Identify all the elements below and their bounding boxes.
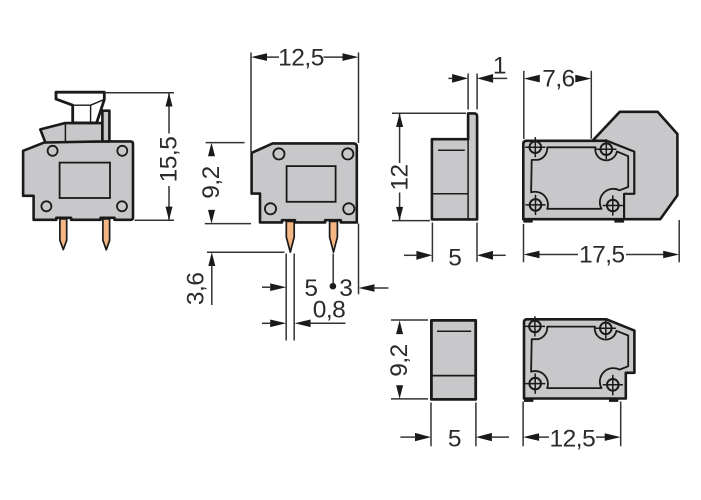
- dim 15,5 arrow down: [166, 207, 173, 221]
- svg-text:1: 1: [493, 53, 506, 80]
- body: [431, 320, 475, 399]
- body with side wall: [432, 113, 477, 219]
- dim 0,8 tail left: [262, 322, 271, 324]
- svg-text:0,8: 0,8: [313, 296, 346, 323]
- solder pin left (front): [286, 221, 294, 252]
- dim 1 right arrow: [477, 74, 493, 83]
- dim 12,5 right extension line (extends below for dim 3): [358, 53, 360, 295]
- dim 15,5 arrow up: [166, 93, 173, 107]
- dim 9,2 bottom reference line: [205, 223, 251, 225]
- pin width extension lines: [286, 254, 294, 341]
- dim 5 arrow (points to pin1): [270, 283, 286, 291]
- dim 12,5 dimension line: [538, 436, 606, 438]
- inner moulding contour: [531, 147, 628, 209]
- dim 7,6 right extension line: [590, 71, 592, 139]
- internal dash: [437, 330, 471, 332]
- push-button (white pusher): [56, 92, 104, 123]
- foot right: [614, 219, 624, 222]
- dim 9,2 arrow down: [396, 385, 403, 399]
- svg-text:7,6: 7,6: [542, 66, 575, 93]
- svg-text:3,6: 3,6: [183, 273, 210, 306]
- svg-text:17,5: 17,5: [579, 242, 625, 269]
- pin tip reference line: [207, 251, 285, 253]
- centre rectangle opening: [287, 166, 336, 202]
- dim 9,2 arrow up: [396, 320, 403, 334]
- internal step line: [431, 375, 475, 377]
- solder pin left: [60, 219, 67, 250]
- screw mark bottom-left: [525, 195, 545, 215]
- svg-text:12: 12: [387, 164, 414, 190]
- lever division line: [64, 123, 66, 141]
- dim 0,8 arrow left side: [270, 320, 286, 328]
- terminal body (front view): [252, 143, 357, 222]
- lever arm: [40, 123, 102, 142]
- dim 12 arrow down: [396, 207, 403, 221]
- internal divider (clamp housing boundary): [607, 141, 634, 219]
- hole bottom-left: [41, 201, 51, 211]
- hole bottom-right: [343, 203, 354, 214]
- dim 5 left arrow: [415, 433, 431, 441]
- dim 1 right tail: [492, 77, 507, 79]
- svg-text:12,5: 12,5: [550, 426, 596, 453]
- solder pin right (front): [330, 221, 338, 252]
- dim 5 (view 3) extension lines: [432, 223, 477, 262]
- svg-text:9,2: 9,2: [198, 166, 225, 199]
- svg-text:15,5: 15,5: [156, 137, 183, 183]
- svg-text:9,2: 9,2: [386, 344, 413, 377]
- dim 1 left tail: [448, 77, 453, 79]
- screw mark bottom-right: [603, 375, 623, 396]
- dim 5 (view 3) left tail: [404, 254, 417, 256]
- foot right: [609, 399, 618, 402]
- dim 5 tail: [262, 286, 271, 288]
- dim 9,2 bottom reference line: [391, 398, 428, 400]
- dim 3,6 tail line: [211, 265, 213, 305]
- body outline with octagonal clamp housing: [523, 112, 677, 219]
- dim 17,5 dimension line: [539, 254, 665, 256]
- dim 7,6 left extension line: [523, 71, 525, 139]
- dim 9,2 arrow up: [208, 143, 215, 157]
- dim 12 arrow up: [396, 113, 403, 127]
- dim 9,2 arrow down: [208, 210, 215, 224]
- dim 7,6 arrow left: [524, 75, 540, 83]
- dim 17,5 arrow left: [524, 251, 540, 259]
- inner moulding contour: [531, 327, 628, 389]
- dim 5 right arrow: [476, 433, 492, 441]
- dim 9,2 top reference line: [206, 142, 245, 144]
- internal dash: [438, 149, 465, 151]
- housing post block: [102, 111, 109, 142]
- solder pin right: [103, 219, 110, 250]
- hole top-right: [342, 148, 353, 159]
- screw mark top-left: [525, 137, 545, 157]
- dim 3 tail: [374, 287, 389, 289]
- dim 3 arrow (points left to body edge line): [359, 284, 375, 292]
- dim 12,5 extension lines: [523, 402, 621, 447]
- screw mark top-right: [596, 139, 616, 159]
- dim 12 top reference line: [392, 112, 466, 114]
- dim 0,8 tail right: [310, 322, 346, 324]
- pusher fold lines: [73, 100, 104, 123]
- dim 5 (view 3) right tail: [492, 254, 506, 256]
- dim endpoint dot: [330, 283, 337, 290]
- dim 0,8 arrow right side: [295, 320, 311, 328]
- dim 1 left arrow: [452, 74, 468, 83]
- foot left: [523, 219, 532, 222]
- dim 7,6 arrow right: [575, 75, 591, 83]
- hole top-right: [117, 146, 127, 156]
- dim 15,5 dimension line: [168, 93, 170, 221]
- dim 5 left tail: [400, 436, 416, 438]
- dim 12 dimension line: [399, 113, 401, 220]
- body outline: [524, 319, 634, 398]
- hole top-left: [48, 146, 58, 156]
- dim 9,2 top reference line: [391, 319, 428, 321]
- dim 12,5 arrow right: [343, 53, 359, 61]
- screw mark bottom-left: [525, 374, 545, 394]
- dim 15,5 top reference line: [105, 92, 174, 94]
- dim 17,5 arrow right: [663, 251, 679, 259]
- dim 12 bottom reference line: [392, 220, 430, 222]
- terminal body (side view): [23, 141, 133, 219]
- hole bottom-left: [265, 203, 276, 214]
- dim 3,6 arrow up: [208, 252, 215, 266]
- screw mark bottom-right: [603, 195, 623, 215]
- foot left: [524, 399, 533, 402]
- dim 12,5 arrow left: [251, 53, 267, 61]
- internal step line: [432, 193, 468, 195]
- dim 12,5 arrow right: [605, 433, 621, 441]
- dim 5 extension lines: [431, 403, 476, 447]
- dim 5 (view 3) right arrow: [477, 251, 493, 260]
- dim 5 (view 3) left arrow: [416, 251, 432, 260]
- dim 12,5 dimension line: [266, 56, 344, 58]
- dim 1 extension lines: [468, 74, 477, 110]
- dim 12,5 arrow left: [523, 433, 539, 441]
- svg-text:5: 5: [448, 426, 461, 453]
- internal divider top edge: [593, 140, 608, 143]
- wall/body boundary: [467, 139, 469, 219]
- dim 15,5 bottom reference line: [135, 219, 175, 221]
- screw mark top-left: [525, 316, 545, 336]
- dim 17,5 extension lines: [524, 220, 680, 262]
- centre rectangle opening: [60, 163, 110, 198]
- screw mark top-right: [596, 318, 616, 338]
- svg-text:5: 5: [448, 244, 461, 271]
- svg-text:12,5: 12,5: [278, 44, 324, 71]
- dim 5 right tail: [491, 436, 509, 438]
- hole bottom-right: [117, 201, 127, 211]
- pin 2 centre extension line: [332, 254, 334, 284]
- dim 12,5 left extension line: [250, 53, 252, 153]
- hole top-left: [273, 148, 284, 159]
